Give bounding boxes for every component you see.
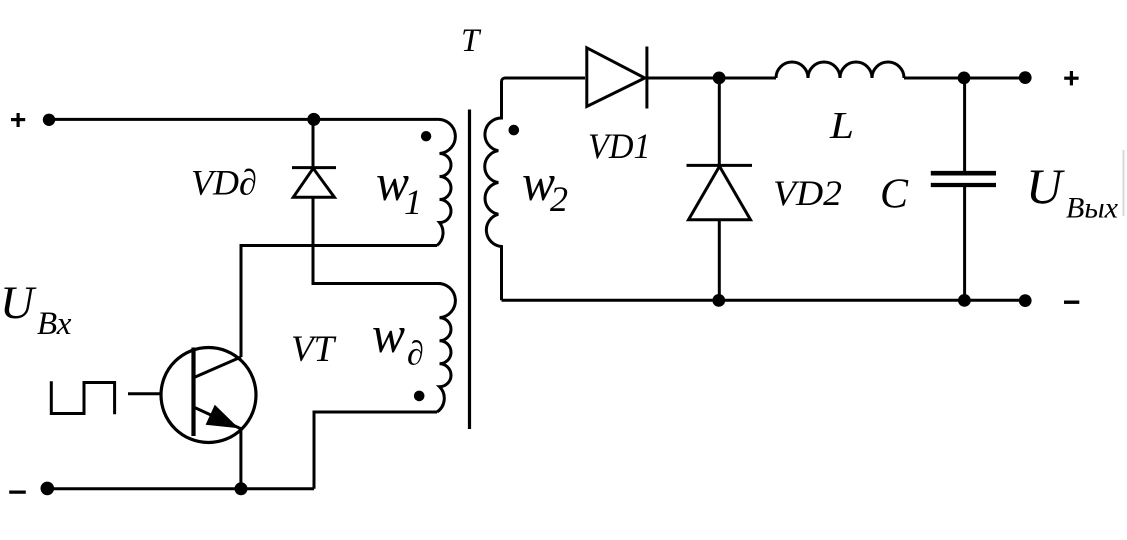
svg-text:VD2: VD2 bbox=[773, 173, 842, 213]
output + terminal dot bbox=[1019, 71, 1032, 84]
wire VD1 cathode to node bbox=[647, 77, 776, 80]
label U Bx (input voltage) bbox=[0, 277, 72, 342]
svg-text:C: C bbox=[880, 172, 909, 218]
wire wd bottom lead bbox=[314, 412, 437, 489]
junction node VD1/VD2/L bbox=[713, 72, 726, 85]
input + terminal dot bbox=[43, 114, 55, 126]
wire w1 bottom to collector bbox=[241, 246, 437, 358]
wire base lead bbox=[128, 392, 163, 395]
svg-text:Вх: Вх bbox=[37, 306, 72, 342]
svg-text:U: U bbox=[0, 277, 37, 329]
bottom rail right bbox=[502, 299, 1026, 302]
capacitor C bbox=[931, 173, 996, 185]
input + terminal sign bbox=[11, 113, 25, 127]
svg-text:VD∂: VD∂ bbox=[191, 163, 257, 203]
svg-text:L: L bbox=[829, 105, 854, 147]
bottom rail left bbox=[48, 487, 315, 490]
diode VDd bbox=[292, 168, 336, 198]
output - sign bbox=[1064, 301, 1079, 304]
svg-text:VT: VT bbox=[291, 329, 337, 370]
label w1 bbox=[376, 155, 422, 222]
phase dot wd bbox=[414, 391, 425, 402]
output + sign bbox=[1064, 71, 1078, 85]
wire VDd anode lead down and right to wd top bbox=[313, 197, 441, 283]
junction node C / - rail bbox=[958, 294, 971, 307]
junction node L/C bbox=[958, 72, 971, 85]
svg-text:1: 1 bbox=[404, 182, 422, 222]
wire VDd cathode lead bbox=[312, 119, 315, 166]
svg-text:VD1: VD1 bbox=[588, 126, 651, 166]
svg-text:T: T bbox=[461, 23, 482, 59]
diode VD2 bbox=[687, 165, 753, 219]
phase dot w2 bbox=[509, 125, 520, 136]
wire C top lead bbox=[963, 78, 966, 172]
wire C bottom lead bbox=[963, 187, 966, 300]
junction node emitter / - rail bbox=[235, 482, 248, 495]
label U Byx (output voltage) bbox=[1026, 158, 1119, 225]
pulse source symbol bbox=[51, 381, 114, 414]
svg-text:w: w bbox=[372, 307, 405, 364]
transistor VT bbox=[161, 348, 256, 443]
winding w1 bbox=[437, 119, 455, 245]
winding w2 bbox=[485, 78, 585, 300]
label wd bbox=[372, 307, 424, 373]
svg-text:2: 2 bbox=[550, 179, 568, 219]
wire top rail + to w1 bbox=[48, 118, 437, 121]
junction node VD2 / - rail bbox=[712, 294, 725, 307]
wire VD2 anode lead bbox=[718, 220, 721, 301]
wire VD2 cathode lead bbox=[718, 78, 721, 165]
svg-text:∂: ∂ bbox=[407, 336, 424, 373]
phase dot w1 bbox=[421, 131, 431, 141]
svg-text:U: U bbox=[1026, 158, 1065, 214]
svg-text:Вых: Вых bbox=[1066, 192, 1119, 225]
input - terminal sign bbox=[9, 491, 26, 494]
winding wd bbox=[437, 283, 455, 412]
label w2 bbox=[522, 155, 568, 219]
wire emitter lead bbox=[239, 428, 242, 489]
wire L to output + bbox=[904, 77, 1025, 80]
diode VD1 bbox=[587, 47, 647, 109]
transformer core T bbox=[468, 110, 471, 430]
input - terminal dot bbox=[41, 482, 55, 496]
output - terminal dot bbox=[1019, 294, 1032, 307]
junction node VDd cathode / + rail bbox=[307, 113, 320, 126]
inductor L bbox=[776, 62, 904, 78]
